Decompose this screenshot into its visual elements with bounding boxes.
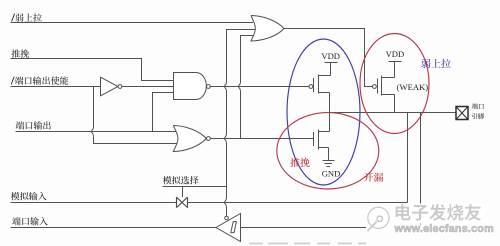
- red ellipse: weak pullup: [360, 34, 429, 134]
- ground symbol: [323, 161, 335, 167]
- pmos M1 VDD stub: [325, 63, 338, 76]
- wire: push-pull net to NAND top input: [11, 59, 175, 81]
- svg-text:VDD: VDD: [321, 51, 340, 61]
- pmos M2 weak pullup: [373, 85, 377, 89]
- pmos M1 (push-pull high side): [309, 85, 313, 89]
- nmos M3 (push-pull low side / open drain): [314, 130, 330, 150]
- svg-text:www.elecfans.com: www.elecfans.com: [394, 223, 494, 235]
- wire: net B NOR-output column to OR gate bottom input, hop over NAND output: [238, 36, 254, 139]
- transmission gate (analog switch): [177, 197, 188, 207]
- wire: port-input line from schmitt output: [11, 227, 217, 229]
- label /端口输出使能: [11, 77, 14, 85]
- schmitt hysteresis mark: [231, 222, 237, 233]
- label 推挽: [11, 49, 19, 57]
- svg-text:VDD: VDD: [386, 49, 405, 59]
- watermark white knockout under logo: [366, 223, 395, 234]
- wire: M2 source down to pin line: [394, 95, 396, 113]
- watermark logo circle: [368, 207, 389, 230]
- wire: port-output net to NOR top input: [16, 131, 182, 133]
- label 端口输入: [12, 217, 20, 225]
- wire: digital-input column from pin line down to schmitt input line: [420, 113, 422, 228]
- schmitt trigger input buffer U6: [216, 214, 241, 242]
- label 开漏 (red): [364, 173, 383, 182]
- wire: NOR output to NMOS M3 gate: [210, 138, 314, 140]
- svg-text:GND: GND: [322, 169, 341, 179]
- svg-text:(WEAK): (WEAK): [397, 82, 429, 92]
- label 模拟选择: [163, 176, 172, 184]
- watermark 电子发烧友: [396, 204, 481, 221]
- label 端口输出: [16, 121, 24, 129]
- OR gate U4: [251, 16, 284, 42]
- NOR gate U5: [173, 126, 206, 152]
- wire: net A analog-select column (OR input / schmitt disable), hops over outputs and analog line: [224, 30, 255, 217]
- blue ellipse: push-pull pair: [287, 39, 360, 185]
- label 弱上拉 (blue): [422, 59, 451, 68]
- wire: NAND output to PMOS M1 gate: [210, 86, 309, 88]
- watermark white knockout under text: [392, 204, 485, 224]
- wire: inverter output to NAND middle input: [122, 86, 174, 88]
- wire: /port-output-enable net to inverter input: [11, 86, 102, 88]
- label 推挽 (red): [290, 158, 309, 167]
- wire: M1 drain column down to pin node and M3 drain: [329, 93, 331, 132]
- wire: port-output branch up to NAND bottom input: [153, 93, 175, 132]
- wire: schmitt input from digital-input column: [241, 227, 421, 229]
- label 端口引脚: [472, 103, 478, 109]
- inverter U2: [101, 77, 119, 96]
- label /弱上拉: [12, 14, 15, 22]
- schmitt disable bubble: [225, 216, 229, 220]
- caption remnant at bottom edge: [249, 243, 366, 245]
- wire: analog-input line left of transmission gate: [11, 202, 177, 204]
- wire: OR output to WEAK PMOS M2 gate: [284, 29, 373, 87]
- wire: enable branch down to NOR bottom input, hop over port-output net: [91, 87, 180, 144]
- wire: pin line to port pad: [330, 112, 457, 114]
- wire: analog-select stem to transmission gate: [182, 187, 184, 198]
- pmos M2 VDD stub: [389, 62, 402, 78]
- port pad symbol: [456, 107, 468, 120]
- wire: /weak-pullup net to OR gate top input: [11, 22, 254, 24]
- wire: analog-select net to net A column: [163, 186, 227, 188]
- NAND gate U3: [174, 73, 207, 100]
- wire: analog column from pin line down to analog-input line: [407, 113, 409, 203]
- label 模拟输入: [11, 192, 20, 200]
- wire: analog-input line right of transmission gate to analog column: [188, 202, 408, 204]
- red ellipse: open drain: [277, 113, 379, 189]
- wire: M3 source to ground: [328, 148, 330, 161]
